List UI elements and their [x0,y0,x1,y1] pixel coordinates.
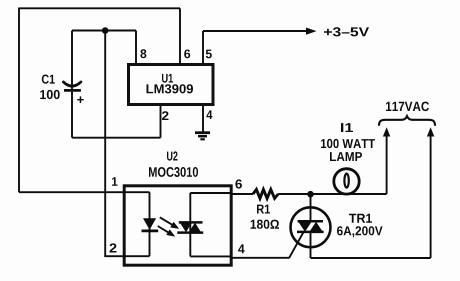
wire +3-5V supply arrow [203,30,307,32]
label C1 [42,75,55,84]
capacitor C1 straight plate [64,89,81,92]
U2 interior top conductor right [190,192,232,194]
wire U1 pin 2 riser [160,106,162,138]
wire U2 pin 1 feed [19,191,150,193]
triac TR1 bottom bar [297,231,324,234]
LED lead (U2 interior) [149,192,151,256]
light arrow 1 [160,217,179,229]
wire U1 pin 4 lead [202,106,204,132]
wire U1 pin 8 riser [135,31,137,65]
capacitor C1 curved plate [63,82,81,86]
arrowhead 117VAC left [383,127,390,136]
triac lead (U2 interior) [189,193,191,257]
117VAC brace [379,116,435,126]
pin label 2 (U2) [110,243,117,252]
wire 117VAC right leg [430,135,432,258]
pin label 4 (U1) [206,110,212,119]
label 6A,200V [337,226,383,237]
optocoupler U2 box [124,186,231,265]
wire 117VAC left leg [386,135,388,194]
wire U1 pin 5 riser [202,31,204,64]
pin label 2 (U1) [162,111,169,120]
triac TR1 top bar [298,220,323,223]
wire C1 bottom lead [71,91,73,138]
ground symbol [195,133,210,140]
wire C1 top link [72,30,136,32]
label TR1 [349,214,372,223]
arrowhead 117VAC right [427,127,434,136]
wire C1 bottom to U1 pin 2 [72,137,161,139]
pin label 6 (U1) [184,50,190,59]
wire resistor to corner under lamp [278,193,386,195]
label 100 WATT [321,139,375,148]
label 117VAC [386,102,429,112]
wire left rail [18,8,20,193]
triac symbol bottom bar (U2) [177,231,203,234]
pin label 8 [140,49,146,58]
label R1 [257,205,270,214]
label MOC3010 [149,167,198,177]
node junction dot C1/pin8 [102,27,109,34]
capacitor C1 plus sign [77,96,84,103]
triac symbol top bar (U2) [179,221,203,224]
wire bottom rail [311,257,431,259]
lamp filament loop [344,174,348,188]
triac TR1 triangle down [298,222,311,232]
pin label 4 (U2) [238,244,245,253]
resistor R1 zigzag [253,189,278,198]
wire TR1 top lead [310,194,312,221]
label LAMP [330,152,362,161]
triac TR1 circle [291,207,331,247]
label LM3909 [147,84,194,93]
wire C1 top lead [71,31,73,90]
label 100 [40,90,60,99]
wire TR1 bottom lead [310,232,312,258]
node label +3-5V [324,27,369,36]
LED triangle [143,218,156,230]
wire U1 pin 6 riser [179,8,181,64]
node junction dot TR1 branch [307,191,314,198]
triac TR1 triangle up [309,222,322,232]
LED cathode bar [142,230,159,233]
lamp I1 circle [334,169,359,194]
label U2 [167,151,178,160]
TR1 gate diagonal [289,232,304,259]
label U1 [162,74,173,83]
pin label 6 (U2) [235,179,242,188]
wire U2 pin 6 to resistor [232,193,253,195]
wire U2 pin 4 to gate [232,257,289,259]
triac triangle up (U2) [189,223,201,233]
pin label 5 [206,50,212,59]
U2 interior bottom conductor right [190,255,232,257]
wire top rail (U1 pin 6 to left rail) [19,7,180,9]
IC U1 box [129,65,214,105]
label I1 [341,123,353,132]
light arrow 2 [158,226,176,237]
pin label 1 (U2) [112,177,118,186]
wire supply vertical junction to U2 pin 2 [105,31,149,257]
arrowhead +3-5V [306,28,317,35]
triac triangle down (U2) [180,223,192,233]
label 180ohm [251,220,279,229]
